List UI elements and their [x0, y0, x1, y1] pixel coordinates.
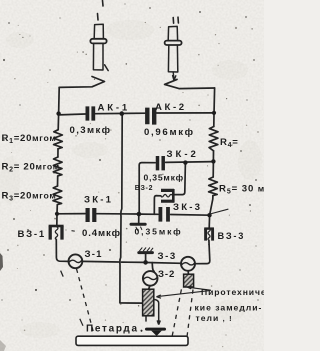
stub to Z-2	[152, 263, 154, 272]
label arrow to small delay box	[187, 286, 211, 290]
igniter VZ-1 top bar	[49, 225, 64, 228]
dashed line Z-1 to petard	[77, 269, 94, 333]
earth ground triangle	[151, 331, 162, 336]
svg-text:ЗК-3: ЗК-3	[173, 202, 202, 213]
pyro delay box (small, below Z-3)	[184, 274, 194, 287]
wire: drop to VZ-2	[174, 162, 185, 194]
wire box to earth	[154, 299, 161, 324]
node: left rail / ZK row	[55, 212, 59, 216]
node: right rail / ZK row	[207, 213, 211, 217]
node: right rail / AK row	[212, 111, 216, 115]
wire: chevron socket to D1	[59, 77, 104, 88]
igniter VZ-3 plates	[206, 229, 213, 241]
dashed line right cone B	[187, 290, 193, 340]
wire: VZ-2 left exit down to ZK row	[154, 196, 161, 215]
resistor R4	[209, 127, 218, 151]
dot after Petarda	[141, 330, 143, 332]
detonator D2 body	[168, 26, 177, 40]
igniter lamp Z-1	[69, 254, 83, 268]
ground G1 bar	[131, 223, 145, 226]
pyro delay box (tall, in petard)	[143, 289, 166, 336]
wire	[57, 176, 59, 186]
resistor R5	[209, 177, 218, 196]
detonator D1 body	[94, 24, 103, 38]
Z-2 bridge wave	[143, 277, 157, 279]
node: ZK-2 / VZ-2 branch	[183, 160, 187, 164]
svg-text:З-3: З-3	[158, 251, 177, 262]
svg-text:0.4мкф: 0.4мкф	[82, 228, 121, 239]
dashed line right cone A	[172, 289, 181, 336]
svg-text:кие замедли-: кие замедли-	[195, 303, 263, 313]
wire: ZK-2 branch from cap to rail	[139, 162, 213, 214]
wire: chevron socket to D2	[165, 79, 215, 88]
wire: Z row	[82, 261, 195, 263]
tick mark	[72, 230, 75, 233]
wire: right rail top	[213, 88, 216, 127]
igniter VZ-2 cap bar	[172, 189, 175, 203]
ground G1 ticks	[136, 227, 142, 230]
node: Z row / chassis G2	[143, 260, 148, 265]
stub Z-2 to delay box	[149, 286, 150, 289]
stub Z-3 to delay box	[187, 271, 189, 274]
tick at VZ-3 junction	[211, 209, 228, 213]
svg-text:З-2: З-2	[158, 269, 175, 280]
detonator D1 lead dashes	[98, 1, 104, 21]
detonator D1 band	[90, 39, 106, 44]
wire	[209, 196, 213, 229]
svg-text:0,96мкф: 0,96мкф	[144, 127, 195, 138]
svg-text:Пиротехниче: Пиротехниче	[201, 287, 264, 297]
capacitor ZK-2 plates	[158, 156, 164, 170]
detonator D2 band	[165, 41, 182, 45]
igniter lamp Z-2	[143, 271, 158, 286]
wire: ZK row	[57, 214, 210, 216]
earth ground bar	[145, 328, 166, 331]
svg-text:ЗК-2: ЗК-2	[167, 149, 199, 160]
tick before Petarda	[80, 319, 83, 326]
detonator D1 lower body	[93, 44, 103, 70]
detonator D2 lead ticks II	[173, 17, 178, 23]
Z-3 bridge wave	[182, 263, 195, 265]
svg-text:Петарда: Петарда	[86, 324, 139, 335]
stray dash tick	[61, 271, 64, 277]
svg-text:АК-2: АК-2	[155, 102, 187, 113]
capacitor ZK-1 plates	[88, 208, 95, 222]
igniter VZ-1 plates	[50, 226, 62, 240]
wire	[212, 151, 214, 177]
ground G1 stem	[138, 214, 140, 223]
svg-text:R5= 30 мгом: R5= 30 мгом	[219, 184, 264, 196]
resistor R3	[53, 186, 62, 205]
igniter VZ-2 squiggle	[161, 194, 173, 197]
svg-text:З-1: З-1	[85, 249, 103, 260]
svg-text:0,3мкф: 0,3мкф	[70, 125, 112, 136]
svg-text:0,35мкф: 0,35мкф	[144, 172, 184, 182]
capacitor ZK-3 plates	[160, 207, 168, 222]
Z-1 bridge wave	[69, 260, 82, 262]
svg-text:ЗК-1: ЗК-1	[84, 194, 113, 205]
junction dots	[55, 111, 216, 265]
svg-text:ВЗ-2: ВЗ-2	[135, 185, 153, 192]
node: left rail / AK row	[56, 111, 60, 115]
wire: left rail	[58, 87, 59, 129]
wire: AK capacitor row	[59, 113, 214, 115]
igniter VZ-1 squiggle	[55, 227, 58, 240]
resistor R2	[53, 157, 62, 176]
node: ZK row / ground G1	[137, 212, 142, 217]
petard platform	[76, 336, 188, 345]
wire	[56, 239, 68, 261]
wire	[57, 149, 59, 157]
chassis G2 stem	[145, 254, 147, 262]
wire	[56, 205, 59, 227]
capacitor AK-2 plates	[147, 108, 154, 125]
svg-text:тели , !: тели , !	[196, 313, 233, 323]
igniter VZ-2 plates	[161, 190, 174, 201]
svg-text:ВЗ-1: ВЗ-1	[18, 229, 47, 240]
node: right rail / ZK-2 row	[211, 159, 215, 163]
resistor R1	[54, 130, 63, 149]
svg-text:АК-1: АК-1	[98, 102, 131, 113]
svg-text:ВЗ-3: ВЗ-3	[218, 231, 246, 241]
detonator D1 tip tick	[105, 65, 109, 71]
wire	[195, 240, 210, 264]
wire: center rail	[120, 114, 142, 303]
stub below box	[145, 316, 147, 322]
igniter VZ-3 top bar	[204, 227, 214, 229]
node: center rail / AK row	[120, 111, 125, 116]
svg-text:0,35мкф: 0,35мкф	[135, 226, 183, 236]
chassis G2 hatch	[140, 248, 153, 251]
igniter VZ-3 squiggle	[208, 228, 210, 240]
capacitor AK-1 plates	[87, 106, 93, 120]
igniter lamp Z-3	[181, 257, 195, 271]
detonator D2 tip arrow	[173, 72, 176, 80]
label arrow to tall delay box	[156, 290, 210, 298]
chassis G2 bar	[139, 251, 153, 254]
detonator D2 lower body	[168, 45, 177, 72]
